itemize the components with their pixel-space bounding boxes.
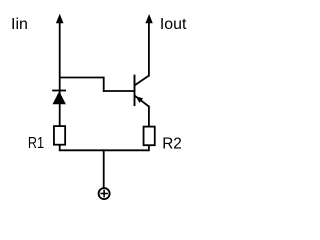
resistor R2 (body) (144, 127, 155, 146)
wire: center tap down to terminal (103, 149, 105, 188)
transistor Q1 collector diagonal (135, 76, 149, 86)
diode D1 (anode triangle) (53, 91, 66, 104)
wire: Iin vertical line down to R1 (59, 22, 61, 127)
wire: Iout vertical line down to collector corner (148, 22, 150, 77)
wire: R2 bottom stub (148, 146, 150, 151)
power terminal (circled plus) (99, 188, 110, 199)
svg-text:Iout: Iout (160, 16, 187, 33)
svg-text:R1: R1 (28, 135, 44, 152)
wire: bottom rail (60, 145, 149, 150)
arrow Iout (current direction, up) (145, 14, 152, 23)
transistor Q1 emitter diagonal (135, 96, 149, 107)
transistor Q1 emitter arrow (PNP, pointing into base) (136, 96, 144, 103)
resistor R1 (body) (54, 126, 65, 145)
svg-text:R2: R2 (162, 136, 182, 153)
arrow Iin (current direction, up) (56, 14, 64, 23)
transistor Q1 base bar (134, 75, 136, 107)
wire: horizontal from Iin line to step (60, 77, 104, 79)
diode D1 (cathode bar) (52, 90, 66, 92)
svg-text:Iin: Iin (11, 16, 28, 33)
wire: emitter vertical down to R2 (148, 106, 150, 127)
wire: base wire to transistor (103, 90, 135, 92)
wire: vertical step connector (103, 77, 105, 92)
